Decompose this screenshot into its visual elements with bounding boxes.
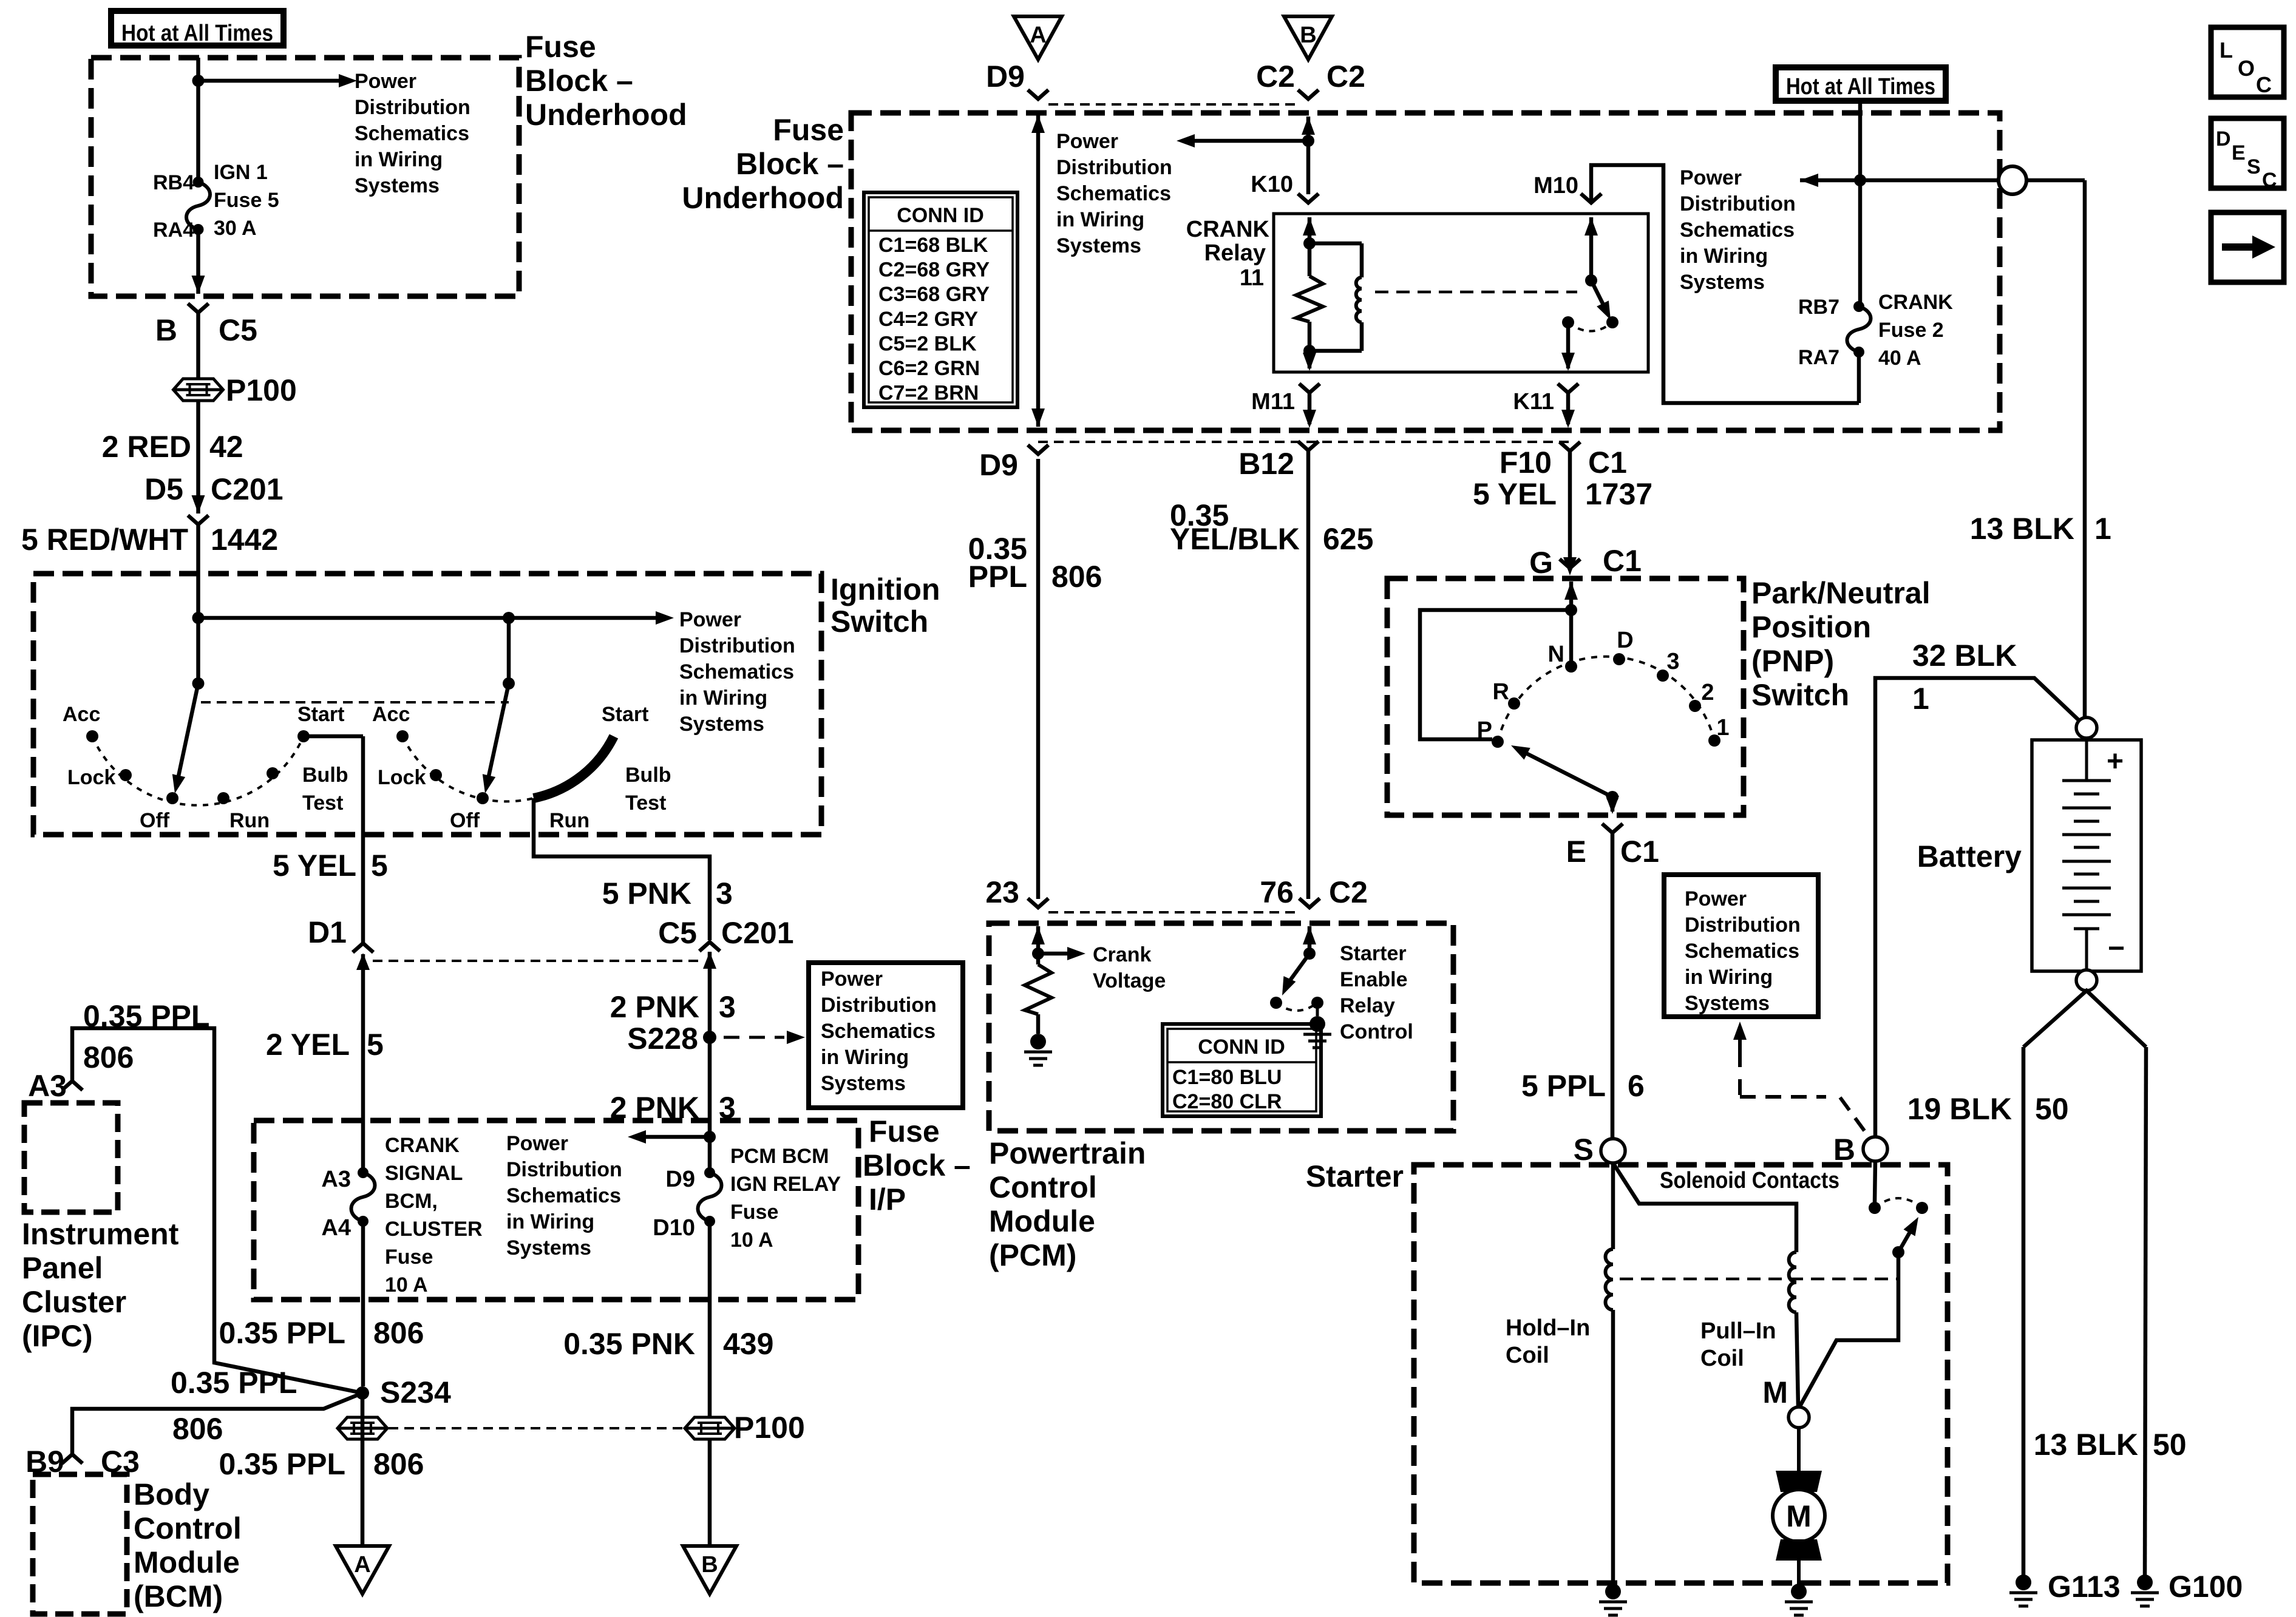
label Run: [229, 809, 270, 832]
connector D5 / C201: [144, 472, 283, 524]
connector D9 (lower): [979, 445, 1048, 482]
svg-text:(IPC): (IPC): [22, 1319, 93, 1353]
svg-text:C201: C201: [721, 916, 794, 950]
CRANK relay box: [1274, 214, 1648, 372]
legend box LOC: [2211, 27, 2284, 97]
connector C201 dashed line: [373, 960, 700, 962]
wire: M terminal to motor: [1797, 1428, 1801, 1471]
note box: Power Distribution Schematics (starter): [1664, 875, 1818, 1017]
svg-text:Off: Off: [140, 809, 170, 832]
relay actuation dashed line: [1375, 291, 1577, 294]
wire: [361, 954, 365, 1173]
svg-text:Control: Control: [134, 1511, 242, 1545]
svg-text:Distribution: Distribution: [821, 994, 937, 1017]
wire: S to pull-in coil: [1613, 1163, 1796, 1252]
wire label 0.35 PPL / 806: [83, 999, 209, 1074]
connector A3 (IPC): [28, 1069, 83, 1103]
wire: [708, 952, 712, 1173]
label Off: [140, 809, 170, 832]
svg-text:Relay: Relay: [1204, 240, 1266, 266]
right switch contact arc (dashed): [402, 736, 534, 801]
svg-text:Power: Power: [506, 1132, 568, 1155]
svg-text:5 YEL: 5 YEL: [1473, 477, 1557, 511]
PNP contacts P R N D 3 2 1: [1492, 653, 1720, 748]
svg-text:50: 50: [2035, 1092, 2069, 1126]
svg-text:Cluster: Cluster: [22, 1285, 126, 1319]
label box: Hot at All Times (right): [1776, 67, 1946, 101]
svg-text:Start: Start: [602, 703, 648, 726]
wire: IPC A3 to S234 0.35 PPL: [72, 1028, 362, 1393]
relay coil feed: [1303, 217, 1316, 276]
wire: hold-in coil to ground: [1611, 1310, 1615, 1584]
svg-text:Bulb: Bulb: [625, 764, 671, 787]
label Fuse Block - I/P: [863, 1114, 971, 1216]
svg-text:10 A: 10 A: [730, 1229, 773, 1252]
PCM switch contacts: [1270, 997, 1323, 1011]
wire: B to solenoid contact: [1875, 1161, 1875, 1203]
svg-text:L: L: [2220, 38, 2233, 63]
pin label A3: [321, 1167, 351, 1192]
label Starter Enable Relay Control: [1340, 942, 1413, 1043]
wire: [708, 1439, 712, 1546]
svg-text:Fuse 2: Fuse 2: [1878, 319, 1944, 342]
svg-text:Test: Test: [302, 792, 343, 815]
wire: [361, 1393, 365, 1546]
svg-text:806: 806: [1051, 560, 1102, 594]
wire label 5 YEL | 1737: [1473, 477, 1652, 511]
label CRANK Relay 11: [1186, 217, 1270, 291]
fuse block underhood box (center, dashed): [851, 113, 2000, 430]
hold-in coil: [1606, 1249, 1614, 1310]
wire: right wiper feed: [507, 618, 511, 683]
pin label D9: [665, 1167, 695, 1192]
svg-text:Test: Test: [625, 792, 666, 815]
wire label 32 BLK / 1: [1912, 639, 2017, 716]
svg-text:Control: Control: [989, 1170, 1097, 1204]
svg-text:C: C: [2262, 169, 2277, 192]
wire to P100: [196, 313, 200, 379]
wire: Run output 5 PNK: [534, 798, 710, 940]
svg-text:Solenoid Contacts: Solenoid Contacts: [1660, 1168, 1839, 1193]
svg-text:K11: K11: [1513, 389, 1554, 415]
svg-text:Power: Power: [1680, 166, 1742, 189]
svg-text:(PCM): (PCM): [989, 1238, 1076, 1272]
svg-text:G: G: [1529, 546, 1553, 580]
wire label 5 RED/WHT | 1442: [21, 523, 278, 557]
svg-text:CONN ID: CONN ID: [1198, 1036, 1285, 1059]
svg-text:0.35 PNK: 0.35 PNK: [563, 1327, 695, 1361]
svg-text:Lock: Lock: [67, 766, 115, 789]
svg-text:IGN 1: IGN 1: [214, 161, 268, 184]
note: Power Distribution Schematics in Wiring Systems: [506, 1132, 622, 1259]
svg-text:PPL: PPL: [968, 560, 1027, 594]
connector F10 / C1: [1500, 442, 1627, 480]
wire 5 YEL 1737 (F10 to PNP): [1568, 451, 1572, 558]
svg-text:Coil: Coil: [1700, 1346, 1744, 1371]
label IGN 1 Fuse 5 30 A: [214, 161, 279, 240]
inline connector (below S234): [338, 1417, 387, 1439]
svg-text:Distribution: Distribution: [1680, 192, 1796, 215]
battery plus: [2107, 745, 2124, 778]
svg-text:C1: C1: [1620, 835, 1659, 869]
note: Power Distribution Schematics in Wiring Systems: [355, 70, 470, 197]
svg-text:K10: K10: [1251, 172, 1293, 197]
svg-text:Fuse: Fuse: [385, 1246, 433, 1269]
svg-text:Module: Module: [134, 1545, 240, 1579]
svg-text:5: 5: [371, 849, 388, 883]
svg-text:A3: A3: [28, 1069, 67, 1103]
solenoid contacts: [1869, 1198, 1928, 1214]
svg-text:C2=80 CLR: C2=80 CLR: [1172, 1090, 1282, 1113]
svg-text:Ignition: Ignition: [830, 572, 940, 606]
svg-text:Relay: Relay: [1340, 994, 1395, 1017]
label Powertrain Control Module (PCM): [989, 1136, 1146, 1272]
svg-text:(BCM): (BCM): [134, 1579, 223, 1613]
svg-text:B: B: [155, 313, 177, 347]
svg-text:Enable: Enable: [1340, 968, 1407, 991]
label CRANK Fuse 2 40 A: [1878, 291, 1953, 370]
wire label 19 BLK | 50: [1907, 1092, 2069, 1126]
wire: S to hold-in coil: [1611, 1163, 1615, 1249]
svg-text:Distribution: Distribution: [679, 634, 795, 657]
note: Power Distribution Schematics in Wiring Systems: [1680, 166, 1796, 294]
svg-text:Lock: Lock: [378, 766, 426, 789]
svg-text:C1=68 BLK: C1=68 BLK: [878, 234, 988, 257]
arrow to Power Distribution Schematics: [199, 74, 358, 87]
svg-text:RB4: RB4: [153, 171, 194, 194]
relay contacts: [1562, 316, 1618, 331]
svg-text:Park/Neutral: Park/Neutral: [1751, 576, 1931, 610]
wire label 13 BLK | 50: [2034, 1428, 2187, 1462]
ground G113: [2009, 1570, 2121, 1606]
pin label RA7: [1798, 346, 1839, 369]
solenoid moving contact: [1892, 1217, 1918, 1258]
starter B terminal: [1833, 1133, 1887, 1167]
pin label A4: [321, 1215, 351, 1241]
fuse CRANK Fuse 2 40A: [1847, 301, 1871, 358]
label box: Hot at All Times (left): [111, 11, 284, 46]
wire: A feed through fuse block: [1031, 115, 1045, 427]
svg-text:Schematics: Schematics: [1056, 182, 1171, 205]
label N: [1548, 642, 1564, 667]
svg-text:Run: Run: [549, 809, 589, 832]
svg-text:P: P: [1477, 717, 1492, 743]
wire: battery+ to B terminal: [1875, 678, 2082, 1137]
svg-text:C5=2 BLK: C5=2 BLK: [878, 332, 977, 355]
wire label 2 YEL | 5: [266, 1028, 384, 1062]
svg-text:1: 1: [1716, 715, 1729, 741]
junction node (right wiper pivot): [503, 677, 515, 690]
starter box (dashed): [1414, 1165, 1948, 1583]
svg-text:Power: Power: [821, 968, 883, 991]
svg-text:D5: D5: [144, 472, 183, 506]
svg-text:Bulb: Bulb: [302, 764, 348, 787]
svg-text:Block –: Block –: [863, 1148, 971, 1182]
svg-text:806: 806: [83, 1040, 134, 1074]
relay switch arm: [1591, 280, 1611, 320]
ground (PCM internal): [1024, 1034, 1052, 1065]
label Off: [450, 809, 480, 832]
label Solenoid Contacts: [1660, 1168, 1839, 1193]
svg-text:RA4: RA4: [153, 219, 194, 242]
label Bulb Test: [302, 764, 348, 815]
PCM starter enable switch: [1303, 926, 1316, 960]
svg-text:Fuse 5: Fuse 5: [214, 189, 279, 212]
svg-text:Acc: Acc: [63, 703, 100, 726]
label Start: [297, 703, 344, 726]
connector D9 (top): [986, 59, 1048, 99]
svg-text:C3=68 GRY: C3=68 GRY: [878, 283, 990, 306]
svg-text:C2=68 GRY: C2=68 GRY: [878, 259, 990, 282]
svg-text:Systems: Systems: [821, 1072, 906, 1095]
off-page connector A (top): [1014, 16, 1062, 59]
right ignition wiper arm: [483, 683, 509, 793]
label Fuse Block - Underhood (center): [682, 113, 844, 215]
PNP input wire: [1564, 581, 1578, 666]
svg-text:A3: A3: [321, 1167, 351, 1192]
label 2: [1701, 680, 1714, 705]
label CRANK SIGNAL BCM CLUSTER Fuse 10 A: [385, 1134, 483, 1297]
connector E / C1: [1566, 824, 1659, 869]
wire: fuse output: [1857, 352, 1861, 403]
svg-text:Schematics: Schematics: [821, 1020, 936, 1043]
svg-text:CONN ID: CONN ID: [897, 204, 984, 227]
wire label 0.35 PPL / 806: [171, 1366, 297, 1446]
svg-text:in Wiring: in Wiring: [1685, 966, 1773, 989]
svg-text:Systems: Systems: [1680, 271, 1765, 294]
svg-text:5 PNK: 5 PNK: [602, 876, 691, 910]
label 3: [1666, 649, 1679, 674]
connector 23: [985, 875, 1048, 909]
relay coil branch: [1309, 243, 1362, 351]
connector C2 / C2 (top): [1256, 59, 1365, 99]
starter M terminal: [1762, 1375, 1809, 1428]
wire: pull-in coil to M: [1796, 1312, 1798, 1407]
ignition switch box (dashed): [33, 574, 821, 835]
wire: battery feed into IGN1 fuse: [196, 58, 200, 182]
junction node + left arrow: [628, 1130, 716, 1144]
svg-text:1737: 1737: [1585, 477, 1652, 511]
svg-text:Hold–In: Hold–In: [1506, 1315, 1590, 1341]
connector G / C1: [1529, 544, 1642, 580]
svg-text:806: 806: [373, 1316, 424, 1350]
svg-text:30 A: 30 A: [214, 217, 257, 240]
svg-text:O: O: [2238, 56, 2255, 81]
svg-text:2 YEL: 2 YEL: [266, 1028, 350, 1062]
svg-text:Underhood: Underhood: [525, 98, 687, 132]
svg-text:76: 76: [1260, 875, 1294, 909]
svg-text:S: S: [2247, 155, 2261, 178]
svg-text:0.35 PPL: 0.35 PPL: [83, 999, 209, 1033]
svg-text:Instrument: Instrument: [22, 1217, 179, 1251]
ground (hold-in): [1599, 1584, 1627, 1615]
left ignition wiper arm: [172, 683, 199, 793]
svg-text:Off: Off: [450, 809, 480, 832]
label Instrument Panel Cluster (IPC): [22, 1217, 179, 1353]
wire label 5 PPL | 6: [1521, 1069, 1645, 1103]
svg-text:0.35 PPL: 0.35 PPL: [219, 1316, 345, 1350]
svg-text:A: A: [354, 1552, 370, 1578]
svg-text:Schematics: Schematics: [506, 1184, 621, 1207]
label R: [1493, 679, 1509, 705]
svg-text:P100: P100: [226, 373, 297, 407]
svg-text:CRANK: CRANK: [385, 1134, 460, 1157]
connector B9 / C3 (BCM): [25, 1445, 140, 1479]
motor brush (top): [1776, 1471, 1822, 1492]
wire: [1036, 1014, 1041, 1034]
svg-text:439: 439: [723, 1327, 773, 1361]
svg-text:D1: D1: [308, 915, 347, 949]
wire from hot bus: [1854, 101, 1866, 307]
arrow to Crank Voltage: [1038, 947, 1085, 960]
svg-text:Control: Control: [1340, 1020, 1413, 1043]
svg-text:PCM BCM: PCM BCM: [730, 1145, 829, 1168]
svg-text:Systems: Systems: [355, 174, 440, 197]
fuse CRANK SIGNAL BCM CLUSTER 10A: [352, 1167, 375, 1227]
svg-text:Battery: Battery: [1917, 839, 2022, 873]
label Acc: [372, 703, 410, 726]
solenoid internal dashed line: [1620, 1278, 1897, 1281]
label Start: [602, 703, 648, 726]
wire label 0.35 YEL/BLK | 625: [1170, 498, 1373, 556]
svg-text:C1: C1: [1603, 544, 1642, 578]
svg-text:0.35 PPL: 0.35 PPL: [171, 1366, 297, 1400]
svg-text:Starter: Starter: [1306, 1159, 1404, 1193]
svg-text:C2: C2: [1256, 59, 1295, 93]
svg-text:6: 6: [1628, 1069, 1645, 1103]
svg-text:C: C: [2256, 72, 2272, 97]
battery negative terminal: [2076, 970, 2097, 991]
relay coil bottom: [1303, 322, 1316, 371]
svg-text:D9: D9: [665, 1167, 695, 1192]
ground (starter enable): [1303, 1003, 1331, 1048]
dashed connector line (PCM top): [1048, 911, 1299, 914]
svg-text:2: 2: [1701, 680, 1714, 705]
right contacts Acc Lock Off: [396, 730, 489, 804]
svg-text:Coil: Coil: [1506, 1343, 1549, 1368]
fuse PCM BCM IGN RELAY 10A: [698, 1167, 722, 1227]
svg-text:(PNP): (PNP): [1751, 644, 1834, 678]
svg-text:RA7: RA7: [1798, 346, 1839, 369]
pin label D10: [653, 1215, 695, 1241]
label PCM BCM IGN RELAY Fuse 10 A: [730, 1145, 841, 1252]
wire: [196, 401, 200, 514]
connector B / C5: [155, 303, 257, 347]
svg-text:R: R: [1493, 679, 1509, 705]
svg-text:13 BLK: 13 BLK: [1970, 512, 2074, 546]
svg-text:42: 42: [209, 430, 243, 464]
svg-text:Distribution: Distribution: [1056, 156, 1172, 179]
pin label RB4: [153, 171, 194, 194]
svg-text:B: B: [1833, 1133, 1855, 1167]
battery box: [2032, 740, 2141, 971]
svg-text:3: 3: [1666, 649, 1679, 674]
svg-text:CRANK: CRANK: [1186, 217, 1270, 242]
svg-text:D9: D9: [986, 59, 1025, 93]
CONN ID table (PCM): [1163, 1024, 1321, 1116]
battery positive terminal: [2076, 717, 2097, 738]
svg-text:C7=2 BRN: C7=2 BRN: [878, 382, 979, 405]
svg-text:M: M: [1762, 1375, 1788, 1409]
ground (motor): [1785, 1584, 1813, 1615]
svg-text:Schematics: Schematics: [679, 660, 794, 683]
svg-text:C5: C5: [658, 916, 697, 950]
svg-text:C1: C1: [1588, 446, 1627, 480]
svg-text:Module: Module: [989, 1204, 1095, 1238]
note: Power Distribution Schematics in Wiring Systems: [679, 608, 795, 736]
relay switch common: [1584, 217, 1598, 286]
svg-text:C6=2 GRN: C6=2 GRN: [878, 357, 980, 380]
svg-text:S: S: [1574, 1133, 1594, 1167]
svg-text:Crank: Crank: [1093, 943, 1151, 966]
label Bulb Test: [625, 764, 671, 815]
svg-text:CRANK: CRANK: [1878, 291, 1953, 314]
wire label 0.35 PPL | 806: [968, 532, 1102, 594]
wire to G113: [2022, 1047, 2026, 1576]
svg-text:CLUSTER: CLUSTER: [385, 1218, 483, 1241]
svg-text:B: B: [701, 1552, 718, 1578]
svg-text:F10: F10: [1500, 446, 1552, 480]
pull-in coil: [1789, 1252, 1796, 1312]
label P: [1477, 717, 1492, 743]
svg-text:C1=80 BLU: C1=80 BLU: [1172, 1066, 1282, 1089]
motor brush (bottom): [1776, 1539, 1822, 1561]
svg-text:Run: Run: [229, 809, 270, 832]
svg-text:in Wiring: in Wiring: [679, 686, 767, 710]
svg-text:E: E: [1566, 835, 1586, 869]
PNP box (dashed): [1387, 578, 1744, 815]
svg-text:5 YEL: 5 YEL: [273, 849, 356, 883]
svg-text:1: 1: [2094, 512, 2111, 546]
svg-text:19 BLK: 19 BLK: [1907, 1092, 2012, 1126]
wire label 2 PNK | 3 (lower): [610, 1091, 736, 1125]
svg-text:Fuse: Fuse: [773, 113, 844, 147]
svg-text:2 PNK: 2 PNK: [610, 990, 699, 1024]
label Lock: [67, 766, 115, 789]
svg-text:G113: G113: [2048, 1570, 2121, 1604]
svg-text:Systems: Systems: [506, 1236, 591, 1259]
label Body Control Module (BCM): [134, 1477, 242, 1613]
battery minus: [2108, 932, 2125, 964]
wire: motor to ground: [1797, 1561, 1801, 1584]
connector B12: [1238, 441, 1319, 481]
svg-text:2 RED: 2 RED: [102, 430, 191, 464]
junction node (left wiper pivot): [192, 677, 205, 690]
legend box arrow: [2211, 212, 2284, 282]
pin label K10: [1251, 172, 1293, 197]
PCM crank voltage input: [1031, 926, 1045, 964]
svg-text:S234: S234: [380, 1375, 451, 1409]
label Ignition Switch: [830, 572, 940, 639]
svg-text:32 BLK: 32 BLK: [1912, 639, 2017, 673]
svg-text:D9: D9: [979, 448, 1018, 482]
wire label 13 BLK | 1: [1970, 512, 2111, 546]
svg-text:806: 806: [172, 1412, 223, 1446]
relay resistor: [1296, 276, 1323, 322]
pin label RA4: [153, 219, 194, 242]
svg-text:Distribution: Distribution: [1685, 914, 1801, 937]
connector K10 path: [1298, 117, 1319, 203]
svg-text:M: M: [1786, 1499, 1812, 1533]
svg-text:in Wiring: in Wiring: [506, 1210, 594, 1233]
legend box DESC: [2211, 118, 2284, 192]
battery negative pitchfork: [2023, 991, 2146, 1047]
svg-text:Power: Power: [679, 608, 741, 631]
wire into ignition switch: [196, 524, 200, 683]
PCM box (dashed): [989, 923, 1453, 1131]
label Hold-In Coil: [1506, 1315, 1590, 1368]
PNP feed to P contact: [1420, 610, 1571, 739]
